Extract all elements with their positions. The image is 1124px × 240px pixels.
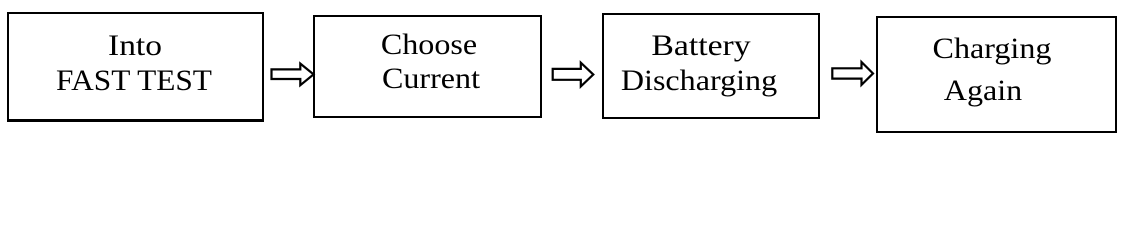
arrow A3: B3 to B4: [832, 62, 873, 85]
box B1: Into FAST TEST: [7, 12, 264, 122]
box B4: Charging Again: [876, 16, 1116, 133]
arrow A1: B1 to B2: [272, 64, 314, 86]
text B3 line 1: Battery: [651, 31, 750, 61]
text B4 line 1: Charging: [933, 34, 1052, 64]
text B1 line 1: Into: [108, 31, 162, 61]
arrow A2: B2 to B3: [553, 63, 594, 87]
text B1 line 2: FAST TEST: [56, 66, 212, 96]
text B3 line 2: Discharging: [621, 66, 777, 96]
text B4 line 2: Again: [943, 76, 1021, 106]
box B3: Battery Discharging: [602, 13, 820, 118]
box B2: Choose Current: [313, 15, 543, 118]
text B2 line 1: Choose: [381, 30, 477, 60]
text B2 line 2: Current: [382, 64, 480, 94]
